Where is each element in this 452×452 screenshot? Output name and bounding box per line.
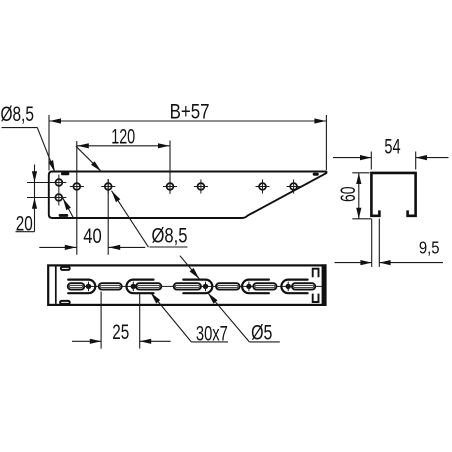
bottom view right inner edge bbox=[322, 264, 327, 306]
slot S6 30x7 bbox=[253, 283, 276, 289]
embossment C around dot D1 (open left) bbox=[68, 280, 95, 294]
embossment C around dot D4 (open right) bbox=[242, 280, 269, 294]
bottom view left inner edge bbox=[55, 267, 57, 304]
leader segment from lower label 8,5 to bottom view slot bbox=[180, 256, 199, 279]
slot S4 30x7 bbox=[174, 283, 201, 289]
leader from label 8,5 to hole H1 bbox=[37, 128, 55, 173]
hole H8 bbox=[287, 180, 301, 194]
label diameter 8,5 lower bbox=[150, 224, 188, 247]
svg-text:30x7: 30x7 bbox=[196, 323, 228, 346]
svg-text:Ø8,5: Ø8,5 bbox=[152, 224, 188, 247]
dimension 40 bbox=[39, 179, 145, 255]
dimension 25 bbox=[72, 292, 171, 349]
weld mark bottom view right-bottom bbox=[313, 294, 319, 302]
hole H4 bbox=[101, 180, 115, 194]
hole H7 bbox=[256, 180, 270, 194]
side view bracket outline bbox=[49, 172, 327, 219]
leader from lower label 8,5 to hole H4 bbox=[112, 191, 149, 248]
slot S5 30x7 bbox=[216, 283, 240, 289]
weld mark bottom view left-bottom bbox=[60, 301, 70, 304]
dimension 54 bbox=[333, 136, 449, 170]
leader segment above hole H4 bbox=[76, 146, 101, 171]
hole H2 bottom wall hole bbox=[55, 194, 62, 201]
svg-text:60: 60 bbox=[337, 187, 360, 203]
dimension 60 bbox=[337, 173, 371, 219]
hole dot D1 bbox=[86, 282, 91, 292]
hole H5 bbox=[163, 183, 177, 190]
weld mark bottom view right-top bbox=[313, 269, 319, 278]
svg-text:120: 120 bbox=[111, 126, 135, 149]
dimension 20 bbox=[16, 165, 38, 236]
bottom view outline bbox=[48, 265, 325, 305]
svg-text:25: 25 bbox=[112, 321, 129, 344]
slot row centerline segments bbox=[84, 285, 322, 287]
dimension 9,5 bbox=[335, 219, 444, 267]
hole dot D2 bbox=[131, 282, 136, 292]
svg-text:Ø5: Ø5 bbox=[251, 322, 272, 345]
svg-text:Ø8,5: Ø8,5 bbox=[0, 103, 34, 126]
svg-text:9,5: 9,5 bbox=[419, 238, 440, 258]
slot S2 30x7 bbox=[99, 283, 122, 289]
embossment C around dot D3 (open left) bbox=[183, 280, 212, 294]
label 30x7 with leader to slot S3 bbox=[151, 293, 228, 346]
label diameter 8,5 top-left bbox=[0, 103, 37, 127]
svg-text:54: 54 bbox=[384, 136, 400, 159]
hole dot D5 bbox=[286, 282, 291, 292]
hole dot D4 bbox=[246, 282, 251, 292]
leader segment at hole H2 bbox=[63, 198, 74, 218]
hole H3 bbox=[70, 183, 84, 190]
svg-text:B+57: B+57 bbox=[170, 100, 210, 123]
C-channel profile (end view) bbox=[371, 173, 415, 216]
wall holes shared vertical centerline bbox=[58, 175, 60, 206]
embossment C around dot D2 (open right) bbox=[127, 280, 154, 294]
svg-text:20: 20 bbox=[16, 212, 33, 235]
dimension B+57 bbox=[49, 100, 326, 170]
hole dot D3 bbox=[203, 282, 208, 292]
weld mark top-left (side view) bbox=[61, 172, 69, 175]
svg-text:40: 40 bbox=[83, 225, 102, 248]
slot S3 30x7 bbox=[136, 283, 161, 289]
weld mark bottom-left (side view) bbox=[59, 214, 68, 217]
hole H6 bbox=[194, 180, 208, 194]
dimension 120 bbox=[77, 126, 170, 255]
embossment C around dot D5 (open right) bbox=[281, 280, 307, 294]
weld mark bottom view left-top bbox=[61, 267, 70, 270]
label diameter 5 with leader to dot D3 bbox=[208, 293, 280, 345]
wall holes horizontal centerlines (20-dim extensions) bbox=[27, 183, 66, 198]
weld mark top-right (side view) bbox=[313, 173, 319, 176]
slot S7 30x7 bbox=[292, 283, 315, 289]
slot S1 30x7 bbox=[68, 283, 85, 289]
hole H1 top wall hole bbox=[56, 179, 63, 186]
